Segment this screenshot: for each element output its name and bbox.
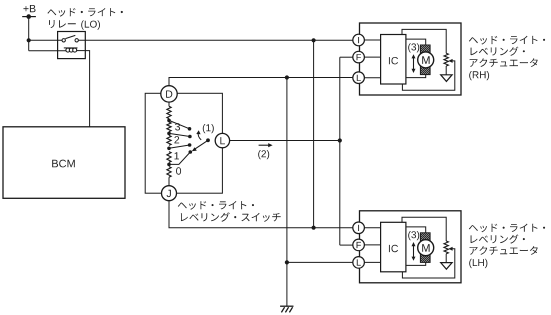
RH wiper arrow and return wire bbox=[448, 59, 452, 63]
label switch line1 bbox=[178, 201, 254, 210]
wire relay coil to BCM bbox=[85, 51, 90, 127]
LH terminal I bbox=[353, 222, 365, 234]
node +B power terminal bbox=[23, 5, 35, 12]
BCM box bbox=[3, 127, 125, 199]
resistor ladder R3 bbox=[167, 135, 171, 145]
rotation arrow bbox=[198, 133, 201, 140]
label relay line2 bbox=[49, 20, 76, 28]
RH triangle ground bbox=[441, 75, 452, 82]
RH wire L to IC bbox=[364, 77, 380, 79]
LH wiper arrow and return wire bbox=[448, 247, 452, 251]
selector arm with arrowhead bbox=[195, 140, 208, 149]
LH terminal L bbox=[353, 257, 365, 269]
label (2) bbox=[258, 150, 269, 159]
LH motor brush bottom bbox=[420, 254, 430, 262]
LH IC box U1 bbox=[381, 222, 406, 271]
wire switch L output bbox=[230, 140, 340, 142]
label 0 bbox=[176, 167, 181, 174]
LH terminal F bbox=[353, 239, 365, 251]
wire L-bus vertical to ground bbox=[286, 78, 288, 307]
label BCM bbox=[52, 160, 75, 168]
wire ladder to J bbox=[168, 177, 170, 186]
RH wire F to IC bbox=[364, 56, 380, 58]
RH terminal F bbox=[353, 51, 365, 63]
RH wire motor bottom to IC bbox=[406, 75, 426, 78]
label switch line2 bbox=[181, 212, 281, 222]
LH label IC bbox=[389, 245, 398, 252]
wire to relay coil bbox=[29, 50, 67, 52]
contact 2 bbox=[188, 135, 192, 139]
wire relay contact output to RH I bbox=[79, 39, 353, 41]
arrow (2) bbox=[259, 144, 270, 146]
junction +B to relay contact bbox=[27, 38, 31, 42]
RH wire I to IC bbox=[364, 39, 380, 41]
actuator RH outer box bbox=[360, 23, 462, 95]
RH motor M1 bbox=[418, 52, 434, 68]
contact 1 bbox=[188, 143, 192, 147]
RH terminal L bbox=[353, 72, 365, 84]
label LH line2 bbox=[471, 234, 525, 243]
label LH line3 bbox=[470, 246, 538, 255]
junction L output / F-bus bbox=[338, 138, 342, 142]
wire F-bus to RH F elbow bbox=[340, 56, 353, 58]
LH wire L to IC bbox=[364, 261, 380, 263]
tap wire 3 bbox=[169, 120, 190, 128]
tap wire 0 bbox=[169, 152, 190, 164]
junction tap 0 bbox=[167, 163, 171, 167]
RH wire IC to motor top bbox=[406, 39, 426, 45]
RH motor brush bottom bbox=[420, 67, 430, 75]
relay coil L1 bbox=[64, 47, 78, 49]
ground symbol bbox=[280, 305, 293, 307]
LH wire IC to motor top bbox=[406, 227, 426, 233]
RH wire IC to potentiometer top bbox=[402, 29, 446, 53]
LH wire IC to potentiometer top bbox=[402, 217, 446, 241]
relay contact terminal left bbox=[62, 39, 65, 42]
resistor ladder R2 bbox=[167, 122, 171, 132]
LH wire motor bottom to IC bbox=[406, 262, 426, 265]
RH IC box U1 bbox=[381, 35, 406, 85]
switch box bbox=[145, 93, 222, 193]
label 1 bbox=[174, 152, 179, 159]
label RH line2 bbox=[471, 47, 525, 56]
relay K1 headlight relay (LO) box bbox=[58, 32, 86, 59]
selector pivot bbox=[206, 138, 210, 142]
wire D to level line bbox=[169, 78, 353, 86]
wire LH L row bbox=[287, 261, 353, 263]
resistor ladder R5 bbox=[167, 167, 171, 178]
LH wire F to IC bbox=[364, 244, 380, 246]
junction tap 3 bbox=[167, 119, 171, 123]
wire F-bus to LH F elbow bbox=[340, 244, 353, 246]
terminal D bbox=[161, 86, 177, 102]
label RH line4 bbox=[469, 71, 489, 80]
LH wire resistor to triangle bbox=[445, 254, 447, 263]
LH wire I to IC bbox=[364, 227, 380, 229]
RH terminal I bbox=[353, 34, 365, 46]
RH label (3) bbox=[408, 43, 419, 52]
label relay line1 bbox=[47, 8, 123, 17]
label 2 bbox=[174, 136, 179, 143]
terminal L switch bbox=[215, 133, 229, 147]
RH motion double arrow bbox=[413, 58, 415, 70]
junction L-bus to LH L row bbox=[285, 260, 289, 264]
label LH line1 bbox=[469, 224, 545, 233]
label LH line4 bbox=[469, 259, 487, 268]
contact 3 bbox=[188, 127, 192, 131]
label RH line3 bbox=[470, 58, 538, 67]
junction I-bus to J row bbox=[312, 226, 316, 230]
tap wire 2 bbox=[169, 133, 190, 136]
resistor ladder R4 bbox=[167, 152, 171, 163]
junction relay output / I-bus bbox=[312, 38, 316, 42]
wire F-bus vertical bbox=[339, 57, 341, 245]
RH potentiometer resistor bbox=[444, 53, 448, 66]
contact 0 bbox=[189, 150, 193, 154]
tap wire 1 bbox=[169, 145, 190, 148]
LH triangle ground bbox=[441, 263, 452, 270]
wire +B vertical feed bbox=[28, 17, 30, 51]
wire I-bus vertical bbox=[313, 40, 315, 227]
label 3 bbox=[175, 123, 180, 130]
LH motor M1 bbox=[418, 240, 434, 256]
actuator LH outer box bbox=[360, 211, 462, 283]
relay contact arm bbox=[65, 35, 75, 38]
RH label IC bbox=[389, 57, 398, 64]
label (1) bbox=[203, 124, 214, 133]
LH potentiometer resistor bbox=[444, 241, 448, 254]
wire switch J to LH I row bbox=[169, 201, 353, 228]
RH wire resistor to triangle bbox=[445, 66, 447, 75]
LH motor brush top bbox=[420, 233, 430, 241]
relay contact terminal right bbox=[75, 39, 78, 42]
junction level line / L-bus bbox=[285, 75, 289, 79]
terminal J bbox=[162, 186, 177, 201]
LH label (3) bbox=[408, 231, 419, 240]
RH motor brush top bbox=[420, 45, 430, 53]
resistor ladder R1 bbox=[167, 106, 171, 118]
LH motion double arrow bbox=[413, 246, 415, 258]
wire to relay contact bbox=[29, 39, 63, 41]
junction tap 1 bbox=[167, 147, 171, 151]
junction tap 2 bbox=[167, 132, 171, 136]
label RH line1 bbox=[469, 36, 545, 45]
